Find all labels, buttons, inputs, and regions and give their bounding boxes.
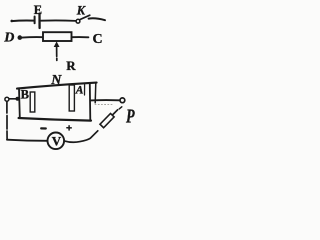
svg-text:D: D (3, 31, 14, 46)
svg-text:P: P (125, 105, 135, 127)
svg-text:A: A (75, 84, 84, 96)
svg-text:N: N (50, 73, 62, 88)
svg-text:E: E (34, 3, 42, 17)
svg-text:R: R (66, 58, 76, 73)
svg-text:C: C (93, 32, 103, 47)
svg-text:K: K (76, 4, 87, 18)
svg-text:B: B (21, 87, 29, 101)
svg-text:V: V (52, 134, 62, 149)
